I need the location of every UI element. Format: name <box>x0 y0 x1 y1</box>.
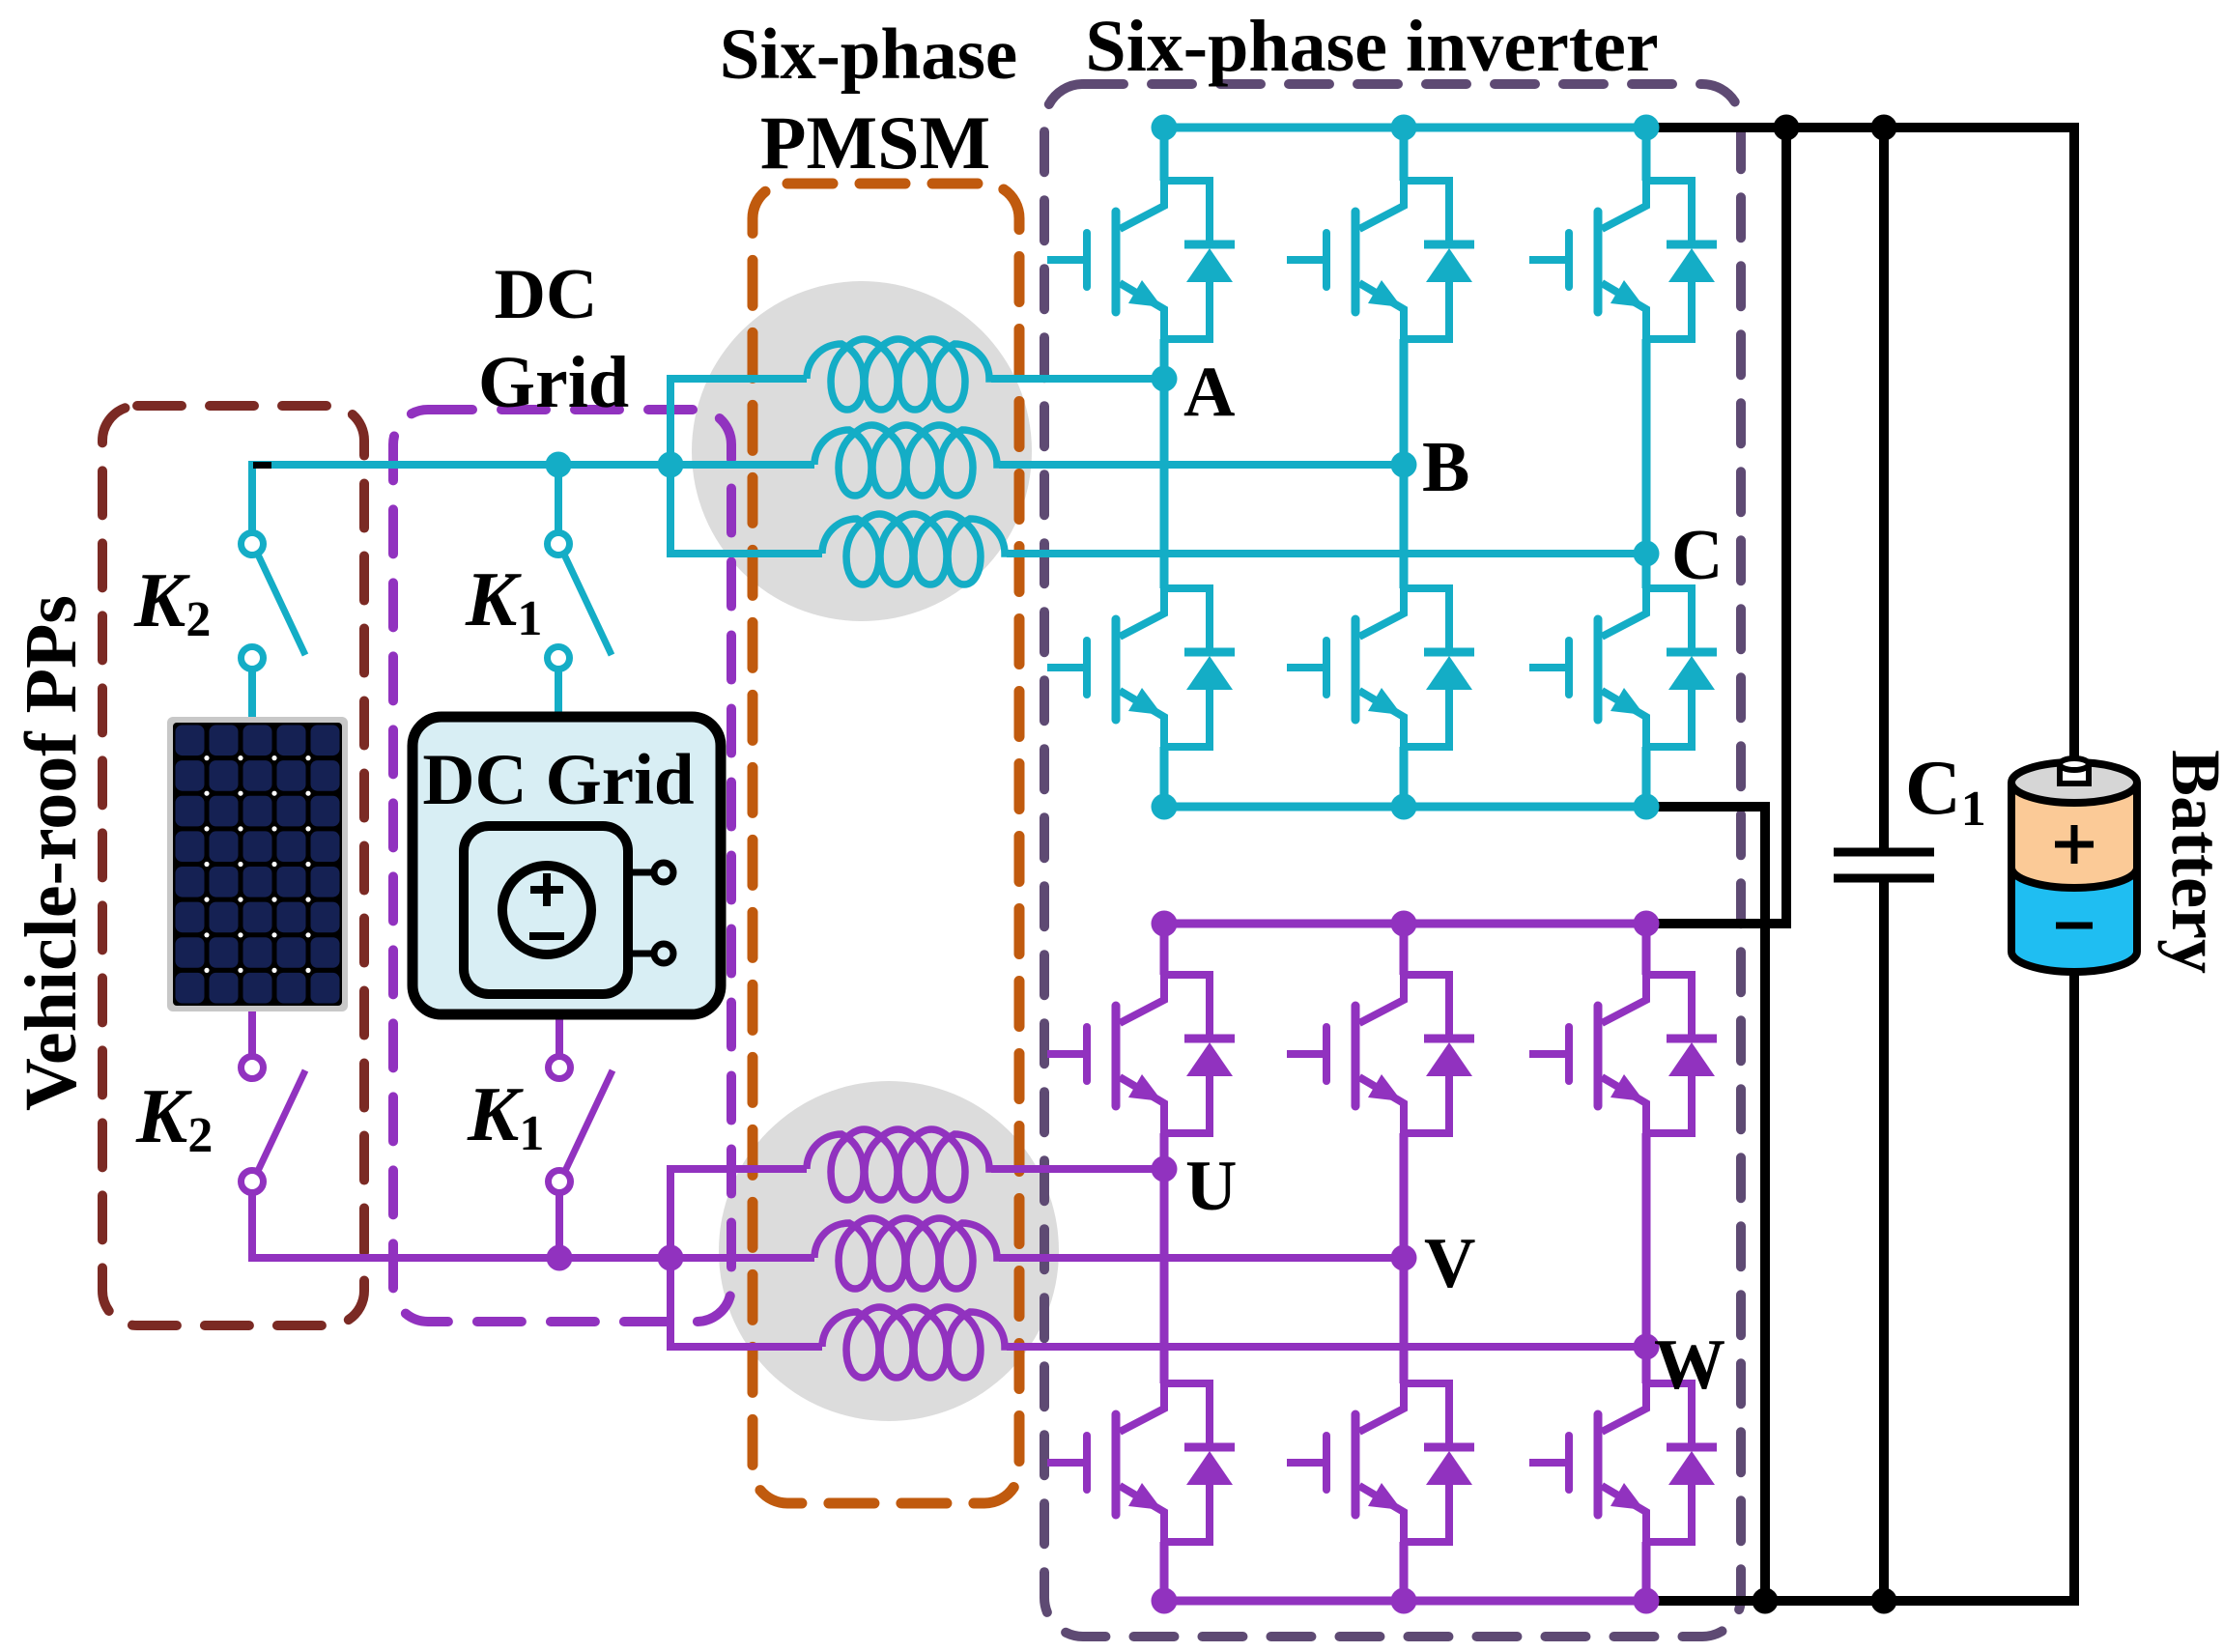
node A <box>1152 366 1178 392</box>
junction top rail / capacitor <box>1871 115 1897 141</box>
switch K1 upper <box>548 533 613 669</box>
junction lower bottom rail leg W <box>1634 1588 1660 1614</box>
transistor Q6 <box>1529 588 1646 747</box>
junction bottom rail leg A <box>1152 794 1178 820</box>
wire: lower bridge top rail (purple) <box>1164 920 1646 928</box>
diode D11 <box>1404 1383 1474 1542</box>
Six-phase PMSM dashed box <box>753 184 1019 1503</box>
wire: K2 upper connections (cyan) <box>248 669 256 717</box>
junction lower top rail leg U <box>1152 911 1178 937</box>
junction bus tee bottom <box>658 1245 684 1271</box>
wire: K1 upper connections (cyan) <box>555 465 562 717</box>
diode D1 <box>1164 181 1235 339</box>
transistor Q10 <box>1047 1383 1164 1542</box>
svg-text:C1: C1 <box>1905 746 1986 837</box>
wire: phase B line (cyan) <box>670 461 1404 469</box>
PMSM stator winding background (lower) <box>719 1081 1059 1421</box>
svg-text:Vehicle-roof PPs: Vehicle-roof PPs <box>11 595 92 1111</box>
wire: leg B verticals (cyan) <box>1400 128 1409 807</box>
node W <box>1634 1334 1660 1360</box>
diode D12 <box>1646 1383 1717 1542</box>
wire: cyan DC bus to switches <box>252 465 670 533</box>
junction bottom rail leg C <box>1634 794 1660 820</box>
switch K2 upper <box>242 533 306 669</box>
wire: leg V verticals (purple) <box>1400 924 1409 1601</box>
junction top rail leg B <box>1391 115 1417 141</box>
wire: phase W line (purple) <box>670 1343 1646 1351</box>
battery <box>2011 758 2137 972</box>
svg-text:DC: DC <box>495 255 598 334</box>
node U <box>1152 1156 1178 1182</box>
node V <box>1391 1245 1417 1271</box>
inductor L_W <box>822 1307 1007 1378</box>
transistor Q2 <box>1287 181 1404 339</box>
diode D8 <box>1404 975 1474 1133</box>
svg-text:Grid: Grid <box>478 342 629 423</box>
junction top rail / lower-bridge bus <box>1774 115 1800 141</box>
junction lower top rail leg W <box>1634 911 1660 937</box>
svg-text:C: C <box>1671 516 1723 595</box>
svg-text:K2: K2 <box>133 558 211 647</box>
junction lower bottom rail leg U <box>1152 1588 1178 1614</box>
switch K2 lower <box>242 1057 306 1193</box>
inductor L_U <box>807 1129 991 1200</box>
diode D9 <box>1646 975 1717 1133</box>
svg-text:A: A <box>1183 353 1235 432</box>
Six-phase inverter dashed box <box>1044 84 1741 1637</box>
battery plus sign <box>2055 825 2094 864</box>
node B <box>1391 452 1417 478</box>
wire: capacitor branch upper (black) <box>1879 128 1889 848</box>
wire: lower bridge bottom rail (purple) <box>1164 1597 1646 1606</box>
diode D5 <box>1404 588 1474 747</box>
transistor Q8 <box>1287 975 1404 1133</box>
diode D2 <box>1404 181 1474 339</box>
diode D3 <box>1646 181 1717 339</box>
wire: K2 lower connections (purple) <box>248 1011 256 1057</box>
wire: bottom DC- rail (black) from inverter to battery <box>1646 958 2074 1601</box>
inductor L_C <box>822 514 1007 584</box>
svg-text:Six-phase inverter: Six-phase inverter <box>1085 6 1658 87</box>
wire: phase U line (purple) <box>670 1165 1164 1173</box>
junction bus K1 top <box>546 452 572 478</box>
svg-text:K1: K1 <box>467 1072 544 1161</box>
transistor Q7 <box>1047 975 1164 1133</box>
minus polarity tick <box>253 462 271 469</box>
junction top rail leg A <box>1152 115 1178 141</box>
svg-text:V: V <box>1424 1224 1475 1303</box>
inductor L_A <box>807 339 991 410</box>
solar PV panel <box>167 717 348 1011</box>
transistor Q4 <box>1047 588 1164 747</box>
diode D7 <box>1164 975 1235 1133</box>
wire: capacitor branch lower (black) <box>1879 882 1889 1601</box>
svg-text:Six-phase: Six-phase <box>720 14 1017 95</box>
diode D6 <box>1646 588 1717 747</box>
wire: leg W verticals (purple) <box>1642 924 1651 1601</box>
junction bottom rail / upper-bridge bus <box>1753 1588 1779 1614</box>
svg-text:K2: K2 <box>135 1074 213 1163</box>
svg-text:W: W <box>1654 1325 1725 1405</box>
transistor Q3 <box>1529 181 1646 339</box>
switch K1 lower <box>549 1057 613 1193</box>
battery minus sign <box>2056 923 2093 929</box>
wire: top DC+ rail (black) from inverter to battery <box>1646 128 2074 768</box>
wire: leg U verticals (purple) <box>1160 924 1169 1601</box>
junction bottom rail leg B <box>1391 794 1417 820</box>
transistor Q12 <box>1529 1383 1646 1542</box>
junction bus K1 bottom <box>547 1245 573 1271</box>
DC Grid source icon <box>413 717 721 1014</box>
inductor L_B <box>814 425 999 496</box>
svg-text:K1: K1 <box>465 557 542 646</box>
wire: phase C line (cyan) <box>670 550 1646 557</box>
svg-text:Battery: Battery <box>2157 750 2223 974</box>
DC Grid dashed box <box>393 410 731 1322</box>
wire: purple DC bus to switches <box>252 1191 670 1258</box>
wire: phase V line (purple) <box>670 1254 1404 1262</box>
junction bus tee top <box>658 452 684 478</box>
transistor Q1 <box>1047 181 1164 339</box>
junction top rail leg C <box>1634 115 1660 141</box>
wire: leg C verticals (cyan) <box>1642 128 1651 807</box>
svg-text:U: U <box>1185 1147 1237 1226</box>
transistor Q5 <box>1287 588 1404 747</box>
wire: upper-bridge negative to bottom rail (black) <box>1646 807 1765 1601</box>
wire: K1 lower connections (purple) <box>556 1014 563 1258</box>
svg-text:B: B <box>1422 428 1469 507</box>
junction bottom rail / capacitor <box>1871 1588 1897 1614</box>
diode D10 <box>1164 1383 1235 1542</box>
wire: phase A line (cyan) <box>670 375 1164 383</box>
node C <box>1634 541 1660 567</box>
wire: upper bridge top rail (cyan) <box>1164 124 1646 132</box>
capacitor C1 <box>1834 852 1934 878</box>
wire: upper bridge bottom rail (cyan) <box>1164 803 1646 812</box>
transistor Q9 <box>1529 975 1646 1133</box>
junction lower bottom rail leg V <box>1391 1588 1417 1614</box>
wire: purple tee vertical at x=694 <box>667 1165 674 1351</box>
Vehicle-roof PPs dashed box <box>102 406 364 1325</box>
svg-text:DC Grid: DC Grid <box>422 740 694 820</box>
svg-text:PMSM: PMSM <box>760 100 990 185</box>
transistor Q11 <box>1287 1383 1404 1542</box>
wire: cyan tee vertical at x=694 <box>667 375 674 557</box>
PMSM stator winding background (upper) <box>692 281 1032 621</box>
inductor L_V <box>814 1218 999 1289</box>
wire: lower-bridge positive to top rail (black) <box>1646 128 1786 924</box>
diode D4 <box>1164 588 1235 747</box>
wire: leg A verticals (cyan) <box>1160 128 1169 807</box>
junction lower top rail leg V <box>1391 911 1417 937</box>
